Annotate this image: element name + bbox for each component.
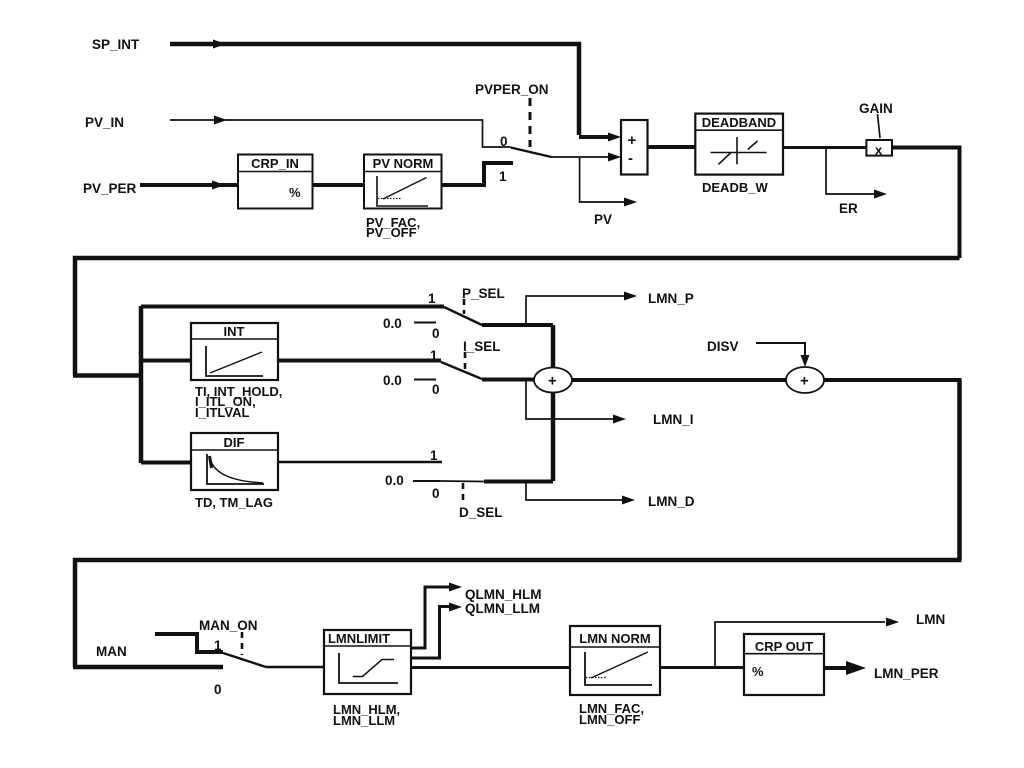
svg-text:-: - bbox=[628, 150, 633, 167]
svg-text:1: 1 bbox=[499, 169, 507, 184]
svg-text:+: + bbox=[800, 373, 809, 390]
svg-text:PVPER_ON: PVPER_ON bbox=[475, 82, 549, 97]
svg-text:INT: INT bbox=[224, 324, 245, 339]
svg-text:DIF: DIF bbox=[224, 435, 245, 450]
svg-text:P_SEL: P_SEL bbox=[462, 286, 505, 301]
svg-text:DEADB_W: DEADB_W bbox=[702, 180, 768, 195]
svg-text:ER: ER bbox=[839, 201, 858, 216]
svg-text:LMN_OFF: LMN_OFF bbox=[579, 712, 640, 727]
svg-text:x: x bbox=[875, 143, 883, 158]
svg-text:GAIN: GAIN bbox=[859, 101, 893, 116]
svg-text:CRP OUT: CRP OUT bbox=[755, 639, 813, 654]
svg-text:DEADBAND: DEADBAND bbox=[702, 115, 776, 130]
svg-text:LMN_PER: LMN_PER bbox=[874, 666, 939, 681]
svg-text:PV_IN: PV_IN bbox=[85, 115, 124, 130]
svg-text:0: 0 bbox=[432, 326, 440, 341]
svg-text:DISV: DISV bbox=[707, 339, 739, 354]
svg-text:TD, TM_LAG: TD, TM_LAG bbox=[195, 495, 273, 510]
svg-text:QLMN_HLM: QLMN_HLM bbox=[465, 587, 542, 602]
svg-text:I_SEL: I_SEL bbox=[463, 339, 501, 354]
svg-text:LMN NORM: LMN NORM bbox=[579, 631, 651, 646]
svg-text:0: 0 bbox=[432, 486, 440, 501]
svg-text:QLMN_LLM: QLMN_LLM bbox=[465, 601, 540, 616]
svg-text:LMN_D: LMN_D bbox=[648, 494, 695, 509]
svg-text:%: % bbox=[289, 185, 301, 200]
svg-text:0: 0 bbox=[214, 682, 222, 697]
svg-text:0.0: 0.0 bbox=[383, 373, 402, 388]
svg-text:0.0: 0.0 bbox=[385, 473, 404, 488]
svg-text:LMNLIMIT: LMNLIMIT bbox=[328, 631, 390, 646]
svg-text:0.0: 0.0 bbox=[383, 316, 402, 331]
svg-text:MAN_ON: MAN_ON bbox=[199, 618, 258, 633]
svg-text:PV_OFF: PV_OFF bbox=[366, 225, 417, 240]
svg-text:1: 1 bbox=[430, 448, 438, 463]
svg-text:%: % bbox=[752, 664, 764, 679]
svg-text:PV: PV bbox=[594, 212, 612, 227]
svg-text:LMN_LLM: LMN_LLM bbox=[333, 713, 395, 728]
svg-text:1: 1 bbox=[428, 291, 436, 306]
svg-text:PV_PER: PV_PER bbox=[83, 181, 137, 196]
svg-text:PV NORM: PV NORM bbox=[373, 156, 434, 171]
svg-text:1: 1 bbox=[214, 638, 222, 653]
svg-text:+: + bbox=[628, 132, 637, 149]
svg-text:0: 0 bbox=[500, 134, 508, 149]
svg-text:LMN: LMN bbox=[916, 612, 945, 627]
svg-text:0: 0 bbox=[432, 382, 440, 397]
svg-text:LMN_P: LMN_P bbox=[648, 291, 694, 306]
svg-text:MAN: MAN bbox=[96, 644, 127, 659]
svg-text:SP_INT: SP_INT bbox=[92, 37, 140, 52]
svg-text:CRP_IN: CRP_IN bbox=[251, 156, 299, 171]
svg-text:+: + bbox=[548, 373, 557, 390]
svg-text:D_SEL: D_SEL bbox=[459, 505, 503, 520]
svg-text:I_ITLVAL: I_ITLVAL bbox=[195, 405, 249, 420]
svg-text:1: 1 bbox=[430, 348, 438, 363]
svg-text:LMN_I: LMN_I bbox=[653, 412, 694, 427]
